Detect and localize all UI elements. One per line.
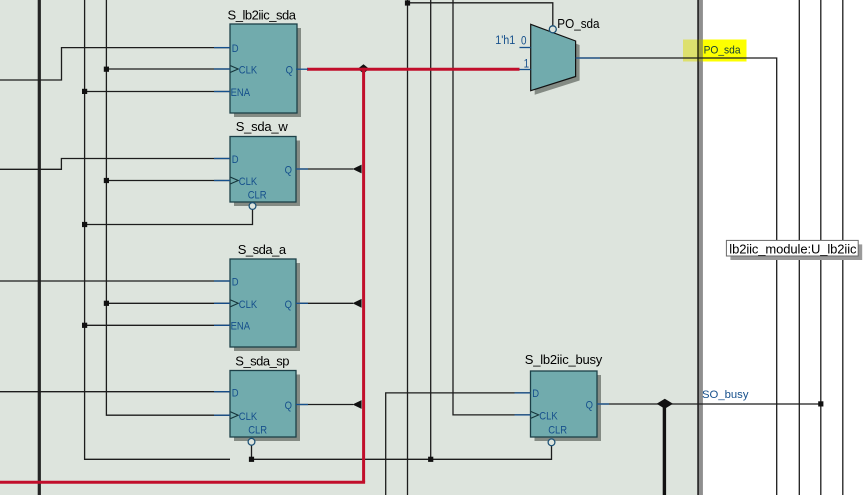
svg-text:Q: Q [285, 299, 292, 311]
svg-text:Q: Q [286, 65, 293, 77]
S_sda_a pin CLK [239, 299, 258, 311]
yellow highlight PO_sda (exterior part) [703, 40, 747, 62]
mux select bubble [549, 26, 556, 33]
wire D net of S_sda_a [0, 280, 230, 282]
mux constant 1'h1 [495, 35, 515, 48]
stub S_sda_sp CLK [214, 414, 230, 416]
junction S_sda_a CLK [104, 301, 109, 306]
fanout arrowhead S_sda_sp Q [353, 400, 362, 409]
S_lb2iic_busy pin D [532, 389, 539, 401]
svg-text:S_lb2iic_busy: S_lb2iic_busy [525, 352, 603, 367]
junction S_lb2iic_sda CLK [104, 67, 109, 72]
wire D net of S_sda_sp [0, 391, 230, 393]
S_sda_a title [238, 242, 287, 257]
svg-text:PO_sda: PO_sda [557, 17, 599, 32]
wire clock vertical net [106, 0, 230, 415]
svg-text:CLK: CLK [239, 299, 258, 311]
flip-flop S_lb2iic_busy [531, 371, 598, 437]
stub S_sda_a D [214, 280, 230, 282]
flip-flop S_lb2iic_sda shadow [234, 28, 301, 117]
S_sda_w pin Q [285, 165, 292, 177]
flip-flop S_sda_a shadow [234, 263, 300, 351]
S_sda_sp clock triangle [230, 412, 238, 419]
S_sda_w pin CLR [248, 190, 267, 202]
wire exterior vertical net 2 [820, 0, 822, 495]
S_sda_a pin ENA [231, 321, 251, 333]
stub S_sda_w D [214, 158, 230, 160]
module boundary bar dark edge [697, 0, 699, 495]
wire shared CLR net [252, 445, 552, 459]
wire S_lb2iic_sda ENA branch [85, 91, 230, 93]
S_sda_sp pin CLR [248, 425, 267, 437]
S_lb2iic_sda pin ENA [231, 87, 251, 99]
module boundary bar [699, 0, 703, 495]
tooltip box [726, 240, 858, 256]
stub S_sda_sp D [214, 391, 230, 393]
stub S_sda_w Q [296, 168, 308, 170]
S_sda_w title [236, 119, 289, 134]
S_lb2iic_sda clock triangle [230, 66, 238, 73]
red net bottom horizontal [0, 481, 365, 484]
wire vertical net x407 [407, 0, 409, 495]
S_sda_sp pin D [232, 388, 239, 400]
junction CLR net vertical 429 [428, 457, 433, 462]
wire S_sda_a CLK branch [106, 302, 230, 304]
flip-flop S_sda_w [230, 137, 296, 203]
svg-text:CLK: CLK [539, 411, 558, 423]
stub S_lb2iic_busy Q [597, 403, 609, 405]
junction mux select net [405, 0, 410, 5]
svg-text:0: 0 [521, 35, 527, 48]
svg-text:S_lb2iic_sda: S_lb2iic_sda [228, 8, 297, 23]
flip-flop S_lb2iic_busy shadow [535, 375, 602, 441]
junction SO_busy end [818, 401, 823, 406]
flip-flop S_sda_sp [230, 371, 296, 438]
svg-text:S_sda_w: S_sda_w [236, 119, 289, 134]
svg-text:S_sda_a: S_sda_a [238, 242, 287, 257]
flip-flop S_sda_w shadow [234, 141, 300, 207]
svg-text:D: D [232, 388, 239, 400]
stub S_sda_a ENA [214, 324, 230, 326]
svg-text:CLK: CLK [239, 65, 258, 77]
S_sda_w pin CLK [239, 177, 258, 189]
S_sda_sp pin Q [285, 401, 292, 413]
svg-text:D: D [232, 154, 239, 166]
S_sda_w CLR bubble [249, 203, 256, 210]
wire vertical net x429 [430, 0, 432, 459]
S_sda_sp pin CLK [239, 411, 258, 423]
flip-flop S_sda_a [230, 259, 296, 347]
mux port 0 label [521, 35, 527, 48]
tooltip shadow [730, 244, 862, 260]
svg-text:PO_sda: PO_sda [704, 44, 741, 56]
wire S_lb2iic_sda CLK branch [106, 68, 230, 70]
mux PO_sda [531, 24, 576, 90]
svg-text:CLK: CLK [239, 177, 258, 189]
junction S_sda_w CLR [82, 222, 87, 227]
wire S_lb2iic_busy D net [386, 393, 531, 495]
stub S_lb2iic_sda CLK [214, 68, 230, 70]
stub S_lb2iic_sda Q [296, 68, 308, 70]
wire S_sda_w Q output [296, 168, 353, 170]
diamond junction on red net [358, 64, 370, 73]
S_sda_a pin D [232, 277, 239, 289]
S_lb2iic_busy pin Q [586, 400, 593, 412]
S_lb2iic_busy clock triangle [531, 412, 539, 419]
svg-text:CLR: CLR [248, 190, 267, 202]
svg-text:S_sda_sp: S_sda_sp [235, 354, 289, 369]
stub S_sda_w CLK [214, 180, 230, 182]
wire D net of S_sda_w [0, 159, 230, 170]
S_sda_a clock triangle [230, 300, 238, 307]
red net vertical [362, 68, 365, 483]
mux label PO_sda [557, 17, 599, 32]
wire enable vertical net [85, 0, 230, 459]
SO_busy pin name [702, 389, 749, 401]
svg-text:1'h1: 1'h1 [495, 35, 515, 48]
S_lb2iic_sda pin D [232, 43, 239, 55]
wire D net of S_lb2iic_sda [0, 48, 230, 80]
svg-text:Q: Q [586, 400, 593, 412]
PO_sda pin name on highlight [704, 44, 741, 56]
wire S_lb2iic_busy CLK net [453, 0, 531, 415]
junction S_sda_sp CLR stem [249, 457, 254, 462]
thick fanout wire below SO_busy junction [663, 404, 666, 495]
red net Q horizontal [307, 68, 520, 71]
thick vertical bus wire left [38, 0, 41, 495]
svg-text:D: D [232, 277, 239, 289]
svg-text:ENA: ENA [231, 87, 251, 99]
flip-flop S_lb2iic_sda [230, 24, 297, 113]
svg-text:lb2iic_module:U_lb2iic: lb2iic_module:U_lb2iic [729, 241, 857, 256]
S_sda_w clock triangle [230, 177, 238, 184]
S_lb2iic_busy pin CLK [539, 411, 558, 423]
S_sda_w pin D [232, 154, 239, 166]
wire exterior vertical net 1 [798, 0, 800, 495]
junction S_sda_a ENA [82, 323, 87, 328]
svg-text:1: 1 [524, 58, 530, 71]
stub S_lb2iic_sda D [214, 47, 230, 49]
diamond junction on SO_busy net [657, 399, 673, 409]
wire PO_sda output net [576, 58, 777, 495]
wire mux select net [408, 3, 553, 26]
wire SO_busy net [597, 403, 821, 405]
svg-text:D: D [532, 389, 539, 401]
stub S_sda_sp Q [296, 404, 308, 406]
svg-text:SO_busy: SO_busy [702, 389, 749, 401]
stub mux input 0 [520, 47, 531, 49]
stub S_lb2iic_sda ENA [214, 91, 230, 93]
S_sda_sp title [235, 354, 289, 369]
mux PO_sda shadow [535, 28, 580, 94]
wire S_sda_w CLK branch [106, 180, 230, 182]
wire S_sda_sp Q output [296, 404, 353, 406]
yellow highlight over bar dark edge [697, 40, 699, 62]
svg-text:ENA: ENA [231, 321, 251, 333]
stub S_sda_a Q [296, 302, 308, 304]
wire S_sda_a Q output [296, 302, 353, 304]
fanout arrowhead S_sda_a Q [353, 299, 362, 308]
stub mux output [576, 57, 600, 59]
mux port 1 label [524, 58, 530, 71]
S_lb2iic_busy title [525, 352, 603, 367]
wire S_sda_a ENA branch [85, 324, 230, 326]
wire S_sda_w CLR stem [85, 209, 253, 224]
S_lb2iic_busy pin CLR [548, 425, 567, 437]
flip-flop S_sda_sp shadow [234, 375, 300, 442]
junction S_sda_w CLK [104, 178, 109, 183]
wire exterior vertical net 3 [842, 0, 844, 495]
junction S_lb2iic_sda ENA [82, 89, 87, 94]
stub S_lb2iic_busy D [515, 392, 531, 394]
svg-text:Q: Q [285, 165, 292, 177]
S_lb2iic_sda title [228, 8, 297, 23]
svg-text:CLR: CLR [548, 425, 567, 437]
stub red net to mux input 1 [520, 69, 531, 71]
stub S_sda_a CLK [214, 302, 230, 304]
yellow highlight PO_sda (interior part) [683, 40, 697, 62]
svg-text:CLK: CLK [239, 411, 258, 423]
stub S_lb2iic_busy CLK [515, 414, 531, 416]
exterior white background [703, 0, 867, 495]
svg-text:D: D [232, 43, 239, 55]
yellow highlight over boundary bar [699, 40, 703, 62]
svg-text:CLR: CLR [248, 425, 267, 437]
S_lb2iic_busy CLR bubble [548, 439, 555, 446]
fanout arrowhead S_sda_w Q [353, 165, 362, 174]
svg-text:Q: Q [285, 401, 292, 413]
S_lb2iic_sda pin CLK [239, 65, 258, 77]
S_sda_sp CLR bubble [248, 438, 255, 445]
S_lb2iic_sda pin Q [286, 65, 293, 77]
S_sda_a pin Q [285, 299, 292, 311]
